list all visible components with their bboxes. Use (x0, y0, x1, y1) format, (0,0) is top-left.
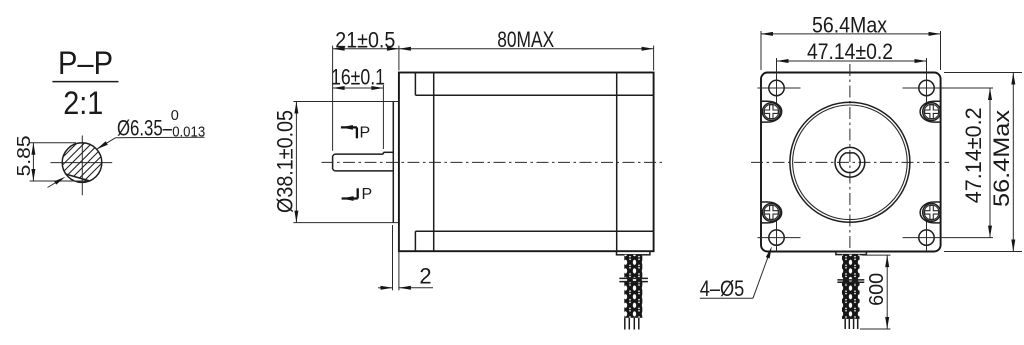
dim 47.14 top line (777, 60, 927, 62)
shaft outline (333, 152, 394, 171)
dim 47.14 right text (961, 107, 986, 203)
section title P-P (58, 45, 113, 81)
assembly screw bottom-right (920, 202, 940, 223)
dim 47.14 right arrows (988, 88, 992, 238)
dim 38.1 text (273, 110, 298, 213)
lead wires front view (845, 319, 858, 329)
dim 56.4 right ext bottom (944, 251, 1022, 253)
section mark P top letter (360, 124, 371, 141)
section centerline horizontal (51, 162, 113, 164)
section mark P top (341, 125, 357, 138)
svg-text:Ø6.35–: Ø6.35– (117, 116, 173, 141)
pilot boss top edge (293, 101, 399, 103)
dim 56.4 top ext left (760, 31, 762, 70)
svg-text:56.4Max: 56.4Max (812, 12, 887, 37)
shaft section circle (62, 143, 102, 183)
dim 5.85 line (32, 143, 34, 181)
dim 21 line (333, 48, 399, 50)
dim 2 extension right (398, 225, 400, 290)
cable braid front view (842, 255, 860, 319)
svg-text:5.85: 5.85 (14, 135, 34, 176)
front endcap boundary (433, 73, 435, 252)
dim 600 ext top (862, 254, 891, 256)
dim 16 text (331, 65, 385, 90)
shaft section hatched region (24, 134, 206, 196)
dim 2 text (419, 264, 431, 289)
dim 21 extension left (332, 46, 334, 151)
svg-text:0: 0 (171, 108, 179, 124)
front centerline horizontal (751, 161, 949, 163)
pilot boss bottom edge (293, 222, 399, 224)
ext line body rear up (653, 46, 655, 71)
label tolerance 0.013 text (172, 124, 205, 140)
svg-text:47.14±0.2: 47.14±0.2 (807, 39, 893, 64)
front face square (761, 73, 941, 252)
assembly screw top-left (761, 101, 782, 122)
dim 16 line (333, 87, 384, 89)
dim 56.4 top line (761, 33, 941, 35)
dim 47.14 top text (807, 39, 893, 64)
dim 56.4 top ext right (940, 31, 942, 70)
dim 47.14 right ext top (945, 87, 993, 89)
assembly screw top-right (920, 101, 941, 122)
svg-text:4–Ø5: 4–Ø5 (700, 276, 745, 301)
dim 47.14 right line (989, 88, 991, 238)
body inner line bottom (415, 230, 653, 232)
dim 21 text (335, 27, 395, 52)
dim 600 line (886, 255, 888, 329)
front centerline vertical (849, 64, 851, 252)
section centerline vertical (81, 136, 83, 196)
dim 56.4 right ext top (944, 72, 1022, 74)
svg-text:600: 600 (866, 273, 888, 306)
body corner step top (414, 73, 416, 96)
dim 80 line (399, 48, 654, 50)
cable collar side view (619, 278, 648, 281)
svg-text:80MAX: 80MAX (497, 27, 554, 52)
svg-text:Ø38.1±0.05: Ø38.1±0.05 (273, 110, 298, 213)
dim 47.14 right ext bottom (945, 237, 993, 239)
dim 80 arrows (399, 47, 654, 51)
svg-text:P–P: P–P (58, 45, 113, 81)
body corner step bottom (414, 231, 416, 251)
pilot boss chamfer circle (793, 105, 908, 220)
cable braid side view (624, 255, 642, 318)
dim 600 text (866, 273, 888, 306)
rear endcap boundary (616, 73, 618, 252)
assembly screw bottom-left (761, 202, 781, 223)
dim 56.4 right line (1012, 73, 1014, 252)
dim 2 line right tail (399, 287, 433, 289)
label 4-dia5 underline (700, 297, 753, 299)
motor body outline (399, 73, 654, 252)
shaft centerline (322, 161, 664, 163)
mounting hole 1 (758, 58, 801, 105)
dim 2 extension left (392, 225, 394, 290)
label 4-dia5 text (700, 276, 745, 301)
label dia 6.35 text (117, 116, 173, 141)
dim 16 extension right (382, 85, 384, 149)
svg-text:P: P (360, 124, 371, 141)
dim 47.14 top arrows (777, 59, 927, 63)
dim 80 text (497, 27, 554, 52)
cable cover bar side view (617, 251, 650, 255)
dim 56.4 right text (989, 110, 1014, 207)
dim 2 arrows (381, 286, 411, 290)
cable collar front view (837, 280, 864, 282)
label dia 6.35 leader (97, 138, 116, 150)
pilot boss circle (790, 102, 910, 222)
dim 16 arrows (333, 86, 384, 90)
label dia 6.35 underline (116, 136, 205, 138)
label 4-dia5 leader (753, 247, 772, 299)
svg-text:56.4Max: 56.4Max (989, 110, 1014, 207)
dim 56.4 top text (812, 12, 887, 37)
pilot boss front face (392, 102, 394, 223)
dim 38.1 arrows (294, 102, 298, 223)
flat leader (48, 177, 66, 188)
dim 56.4 top arrows (761, 32, 941, 36)
section mark P bottom letter (362, 186, 373, 203)
ext line body front up (398, 46, 400, 71)
svg-text:47.14±0.2: 47.14±0.2 (961, 107, 986, 203)
mounting hole 2 (903, 58, 946, 105)
section scale 2:1 (63, 85, 103, 121)
dim 5.85 text (14, 135, 34, 176)
svg-text:2: 2 (419, 264, 431, 289)
section title fraction line (52, 81, 118, 83)
bearing bore circle (835, 147, 865, 177)
svg-text:0.013: 0.013 (172, 124, 205, 140)
svg-text:21±0.5: 21±0.5 (335, 27, 395, 52)
label tolerance 0 text (171, 108, 179, 124)
dim 5.85 extension bottom (30, 180, 87, 182)
dim 5.85 arrows (31, 143, 35, 181)
body inner line top (415, 94, 653, 96)
svg-text:2:1: 2:1 (63, 85, 103, 121)
dim 21 arrows (333, 47, 399, 51)
shaft circle with flat (840, 153, 861, 173)
svg-text:P: P (362, 186, 373, 203)
cable cover bar front view (836, 252, 867, 255)
dim 600 arrows (885, 255, 889, 329)
dim 2 line left tail (378, 287, 393, 289)
dim 5.85 extension top (30, 142, 76, 144)
mounting hole 4 (903, 220, 946, 252)
dim 600 ext bottom (860, 328, 891, 330)
shaft flat chord (66, 174, 90, 181)
section mark P bottom (342, 188, 358, 201)
dim 56.4 right arrows (1011, 73, 1015, 252)
svg-text:16±0.1: 16±0.1 (331, 65, 385, 90)
dim 38.1 line (295, 102, 297, 223)
lead wires side view (625, 318, 639, 330)
mounting hole 3 (758, 220, 801, 252)
